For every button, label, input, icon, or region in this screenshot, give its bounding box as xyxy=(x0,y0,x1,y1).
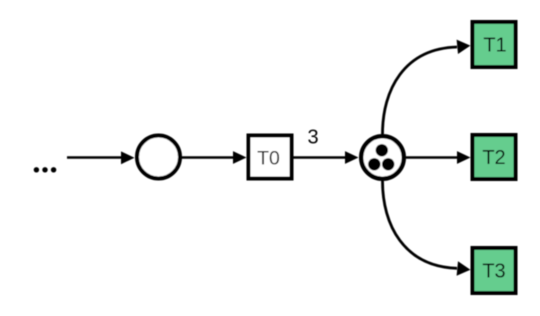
svg-text:T2: T2 xyxy=(482,147,505,169)
svg-text:T0: T0 xyxy=(257,148,280,170)
svg-text:3: 3 xyxy=(307,127,318,149)
wire P0 to T0 xyxy=(181,151,247,164)
transition T1 xyxy=(473,22,516,67)
token 1 xyxy=(376,144,388,156)
wire input arrow xyxy=(67,151,135,164)
transition T2 xyxy=(473,135,516,179)
wire P1 to T3 curved xyxy=(383,181,471,276)
node source ellipsis xyxy=(34,167,57,172)
token 2 xyxy=(368,158,380,170)
transition T0 xyxy=(249,136,292,179)
place P0 xyxy=(137,136,180,179)
wire T0 to P1 xyxy=(292,151,359,164)
place P1 xyxy=(361,136,404,179)
wire P1 to T2 xyxy=(406,151,471,164)
svg-text:T3: T3 xyxy=(482,261,505,283)
wire P1 to T1 curved xyxy=(383,40,471,134)
value label 3 xyxy=(307,127,318,149)
transition T3 xyxy=(473,248,516,293)
svg-text:T1: T1 xyxy=(483,35,506,57)
token 3 xyxy=(382,158,394,170)
